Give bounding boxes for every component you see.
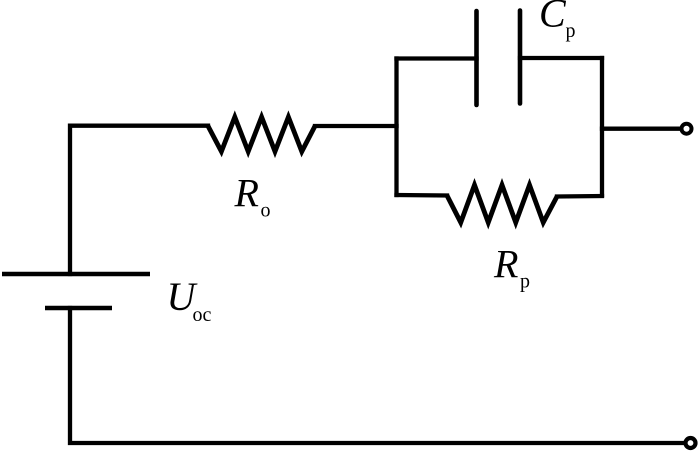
label R_p [493,242,530,293]
wire: box top rail right segment from capacitor plate [520,56,602,60]
svg-text:o: o [261,200,271,222]
wire: box top rail left segment to capacitor plate [397,56,477,60]
wire: box bottom rail right segment [557,194,602,199]
resistor R_o zigzag [208,117,315,152]
svg-text:C: C [539,0,567,36]
label R_o [234,171,271,222]
node: positive output terminal [682,124,692,134]
svg-text:p: p [520,271,530,293]
wire: box left vertical [394,59,398,196]
wire: R_o to parallel box left node [315,124,397,128]
wire: box right vertical [600,58,604,195]
battery U_oc short plate [45,306,112,311]
wire: box right node to positive terminal [602,127,681,131]
label U_oc [167,274,212,326]
wire: left vertical from battery + up to top rail [70,126,208,274]
svg-text:R: R [234,171,259,216]
wire: box bottom rail left segment [397,193,448,198]
battery U_oc long plate [2,272,150,277]
label C_p [539,0,576,42]
svg-text:R: R [493,242,518,287]
svg-text:p: p [566,20,576,42]
capacitor C_p right plate [518,11,523,104]
capacitor C_p left plate [474,11,479,105]
svg-text:oc: oc [193,304,212,326]
node: negative output terminal [686,438,696,448]
resistor R_p zigzag [447,185,557,223]
wire: battery negative down and bottom rail to negative terminal [70,308,684,443]
